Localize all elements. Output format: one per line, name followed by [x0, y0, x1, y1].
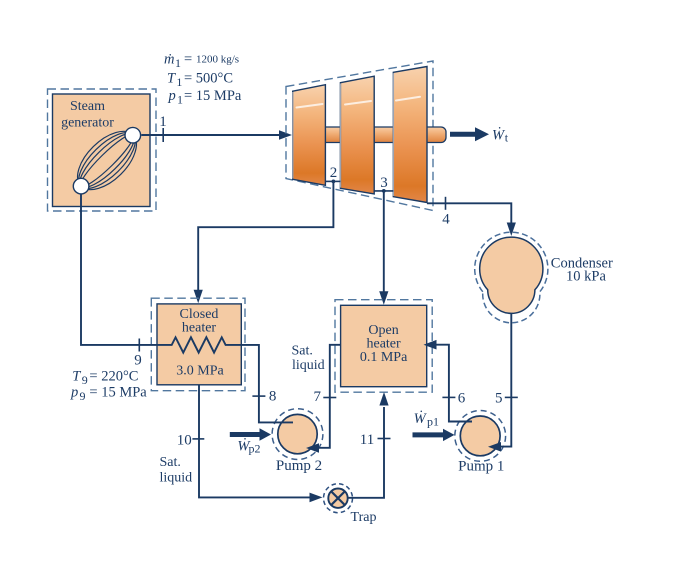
turbine work arrow Wt	[450, 132, 476, 137]
svg-text:ṁ: ṁ	[164, 52, 174, 68]
svg-text:p1: p1	[427, 415, 439, 429]
node 7 tick	[323, 397, 336, 399]
svg-text:10: 10	[177, 433, 192, 449]
steam generator coil	[67, 121, 146, 200]
wire 10: closed heater to trap	[199, 385, 318, 498]
node 5 tick	[505, 396, 518, 398]
svg-text:Sat.: Sat.	[292, 344, 313, 359]
closed heater body	[157, 304, 241, 385]
svg-text:= 500°C: = 500°C	[184, 71, 233, 87]
svg-text:9: 9	[80, 389, 86, 403]
node 8 tick	[252, 395, 265, 397]
wire 2: turbine to closed heater	[198, 181, 333, 290]
svg-text:liquid: liquid	[292, 358, 325, 373]
svg-text:2: 2	[330, 165, 338, 181]
pump 2 work arrow Wp2	[230, 432, 260, 437]
node 11 tick	[378, 438, 391, 440]
wire 5: condenser to pump 1	[498, 313, 511, 447]
open heater body	[341, 305, 427, 386]
trap body	[328, 489, 347, 508]
pump 1 body	[460, 416, 500, 456]
blade left-edge light highlights	[293, 73, 394, 196]
svg-text:=: =	[184, 52, 192, 68]
node 2 stub	[325, 180, 340, 182]
svg-text:7: 7	[314, 389, 322, 405]
wire 3: turbine to open heater	[383, 191, 385, 292]
condenser dashed outline	[475, 232, 548, 323]
closed heater dashed enclosure	[151, 298, 245, 391]
steam generator body	[53, 94, 151, 207]
wire 7: open heater to pump 2	[318, 345, 341, 448]
pump 1 dashed circle	[455, 411, 506, 462]
wire 9: closed heater to steam generator	[81, 195, 157, 345]
wire 8: pump 2 to closed heater	[241, 345, 293, 423]
svg-text:1: 1	[159, 114, 167, 130]
svg-text:liquid: liquid	[160, 471, 193, 486]
svg-text:T: T	[167, 71, 176, 87]
svg-text:1: 1	[176, 75, 182, 89]
steam generator top drum node	[125, 127, 141, 143]
svg-text:6: 6	[458, 390, 466, 406]
turbine blade 1	[293, 85, 326, 186]
wire 11: trap to open heater	[347, 407, 384, 498]
svg-text:Pump 2: Pump 2	[276, 458, 322, 474]
svg-text:= 220°C: = 220°C	[89, 368, 138, 384]
svg-text:generator: generator	[61, 116, 114, 131]
blade highlights	[297, 97, 421, 108]
svg-text:11: 11	[360, 432, 374, 448]
svg-text:1: 1	[175, 56, 181, 70]
svg-text:= 15 MPa: = 15 MPa	[89, 384, 147, 400]
svg-text:T: T	[72, 368, 81, 384]
svg-text:1: 1	[177, 93, 183, 107]
steam generator dashed enclosure	[48, 89, 157, 211]
node 10 tick	[192, 438, 204, 440]
svg-text:Sat.: Sat.	[160, 455, 181, 470]
node 9 tick	[138, 339, 140, 352]
svg-text:heater: heater	[182, 321, 217, 336]
turbine blade 3	[393, 67, 427, 203]
pump 2 dashed circle	[272, 409, 323, 460]
svg-text:p: p	[70, 384, 78, 400]
svg-text:Trap: Trap	[351, 510, 377, 525]
wire 4: turbine to condenser	[427, 203, 511, 223]
turbine blade 2	[340, 76, 374, 194]
node 3 stub	[374, 190, 393, 192]
node 4 tick	[445, 197, 447, 210]
svg-text:8: 8	[269, 389, 277, 405]
svg-text:p2: p2	[249, 442, 261, 456]
svg-text:9: 9	[134, 353, 142, 369]
closed heater tube zigzag	[157, 337, 241, 352]
svg-text:5: 5	[495, 390, 503, 406]
open heater dashed enclosure	[335, 300, 432, 393]
svg-text:3.0 MPa: 3.0 MPa	[176, 364, 224, 379]
trap X	[331, 491, 345, 505]
svg-text:1200 kg/s: 1200 kg/s	[196, 54, 239, 66]
condenser body	[480, 237, 543, 313]
svg-text:0.1 MPa: 0.1 MPa	[360, 350, 408, 365]
turbine dashed enclosure	[286, 61, 433, 211]
svg-text:= 15 MPa: = 15 MPa	[184, 88, 242, 104]
svg-text:10 kPa: 10 kPa	[566, 268, 606, 284]
node 1 tick	[162, 128, 164, 142]
svg-text:Ẇ: Ẇ	[414, 410, 428, 427]
wire 1: steam generator to turbine	[141, 134, 280, 136]
pump 1 work arrow Wp1	[413, 432, 445, 437]
wire 6: pump 1 to open heater	[436, 345, 472, 422]
svg-text:Pump 1: Pump 1	[458, 459, 504, 475]
svg-text:9: 9	[82, 373, 88, 387]
svg-text:p: p	[168, 88, 176, 104]
svg-text:4: 4	[442, 212, 450, 228]
node 6 tick	[442, 396, 455, 398]
svg-text:Steam: Steam	[70, 99, 105, 114]
turbine shaft	[300, 127, 446, 143]
trap dashed circle	[324, 484, 353, 513]
pump 2 body	[278, 414, 317, 453]
svg-text:3: 3	[380, 175, 388, 191]
steam generator bottom drum node	[73, 178, 89, 194]
